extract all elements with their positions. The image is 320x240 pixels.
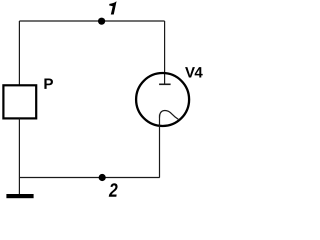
node 1 label xyxy=(109,1,117,14)
label P xyxy=(44,79,53,89)
wire: left vertical from P down to bottom junction and ground xyxy=(18,118,20,194)
wire: bottom net from left junction to node 2 xyxy=(19,177,102,179)
label V4 xyxy=(185,67,195,77)
wire: left vertical from top corner down to component P xyxy=(18,21,20,85)
wire: top net from node 1 to top-right corner xyxy=(102,20,165,22)
tube V4 cathode curl xyxy=(160,111,179,120)
tube V4 envelope xyxy=(136,73,189,126)
node 1 junction dot xyxy=(98,18,105,25)
component P (box) xyxy=(3,85,36,118)
wire: cathode lead down to bottom wire xyxy=(159,115,161,178)
node 2 junction dot xyxy=(99,174,106,181)
wire: bottom net from node 2 to bottom-right corner xyxy=(102,177,160,179)
node 2 label xyxy=(109,183,118,196)
ground symbol xyxy=(6,194,33,198)
wire: right vertical from top-right corner to tube anode xyxy=(164,21,166,84)
tube V4 anode bar xyxy=(159,83,171,85)
wire: top net from left corner to node 1 xyxy=(19,20,101,22)
